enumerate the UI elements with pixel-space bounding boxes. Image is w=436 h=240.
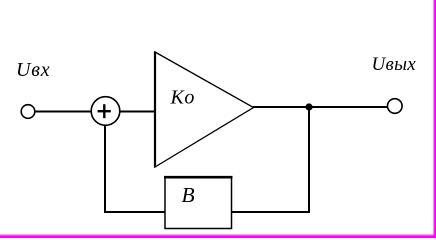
svg-text:В: В (182, 183, 195, 207)
svg-text:Kо: Kо (170, 87, 195, 109)
svg-text:Uвх: Uвх (16, 59, 50, 81)
svg-text:Uвых: Uвых (372, 54, 417, 75)
